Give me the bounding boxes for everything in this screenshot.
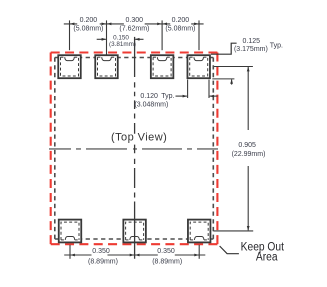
bottom dimension line [64,254,205,256]
svg-text:(7.62mm): (7.62mm) [119,26,149,33]
svg-text:0.120: 0.120 [140,93,158,100]
dimension 0.125 bracket leader [211,43,237,54]
0.125 bottom arrow [231,79,233,84]
0.905 top extension line [214,66,253,68]
extension line pad3 center [161,20,163,50]
svg-text:0.200: 0.200 [80,17,98,24]
svg-text:(3.048mm): (3.048mm) [134,102,168,109]
arrowheads top dimension [70,23,199,26]
extension line pad1 center [69,20,71,50]
pad P3 (top row) [151,55,174,78]
pad P5 (bottom row, left) [59,220,82,243]
horizontal centerline [49,148,219,150]
dimension 0.150 arrows [97,38,106,40]
svg-text:0.905: 0.905 [238,142,256,149]
svg-text:(Top View): (Top View) [111,131,167,143]
keep out leader line [220,246,239,254]
vertical centerline [134,37,136,259]
svg-text:(5.08mm): (5.08mm) [73,26,103,33]
svg-text:(8.89mm): (8.89mm) [88,258,118,265]
pad P2 (top row) [95,55,118,78]
svg-text:Typ.: Typ. [270,42,283,49]
svg-text:(22.99mm): (22.99mm) [232,151,266,158]
bottom extension line left (pad5 center) [69,245,71,259]
svg-text:0.300: 0.300 [126,17,144,24]
module body outline (gray dashed rect) [55,58,214,240]
svg-text:0.125: 0.125 [243,38,261,45]
arrowheads bottom dimension [70,254,198,257]
top dimension line [64,23,204,25]
extension line pad2 center [106,20,108,54]
0.905 bottom extension line [213,230,253,232]
svg-text:(3.175mm): (3.175mm) [234,46,268,53]
pad P6 (bottom row, center) [123,220,146,243]
svg-text:0.350: 0.350 [157,248,175,255]
bottom extension line right (pad7 center) [198,245,200,259]
pad P4 (top row, rightmost) [187,55,210,78]
pad P1 (top row, leftmost) [58,55,81,78]
0.905 dimension line [247,67,249,130]
svg-text:0.350: 0.350 [92,248,110,255]
keep-out area boundary (red dashed rect) [51,53,218,245]
pad P7 (bottom row, right) [188,220,211,243]
svg-text:(5.08mm): (5.08mm) [165,26,195,33]
0.120 arrows [176,95,187,97]
svg-text:(8.89mm): (8.89mm) [152,258,182,265]
pad4 bottom extension for 0.125 [212,78,234,80]
svg-text:0.200: 0.200 [172,17,190,24]
svg-text:(3.81mm): (3.81mm) [109,41,136,48]
svg-text:Area: Area [256,251,278,264]
0.120 extension lines (pad4 sides) [187,80,189,99]
extension line pad4 center [198,20,200,50]
svg-text:Typ.: Typ. [161,93,174,100]
